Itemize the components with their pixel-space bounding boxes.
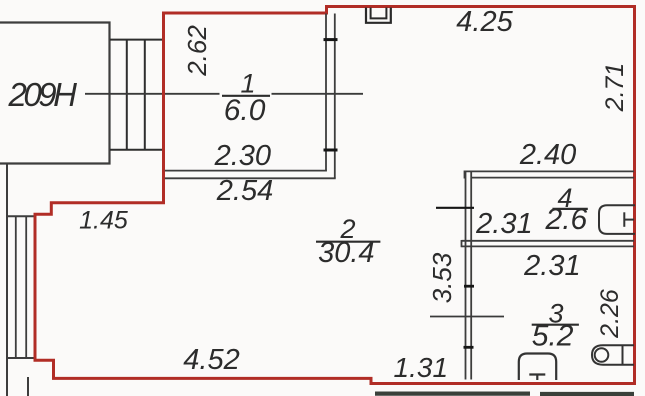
svg-text:2.31: 2.31	[523, 250, 580, 282]
svg-text:2.31: 2.31	[475, 208, 532, 240]
wall divider rooms 2/3-4 (double vertical)	[466, 171, 472, 379]
svg-text:30.4: 30.4	[318, 237, 374, 269]
fraction line room 2	[316, 241, 380, 243]
leader line from 209Н label (left part)	[85, 93, 220, 95]
fraction line room 1	[222, 95, 270, 97]
svg-text:2.71: 2.71	[601, 63, 629, 113]
svg-text:2.30: 2.30	[214, 140, 271, 172]
leader line from 209Н label (right part)	[272, 93, 364, 95]
washing machine symbol room 4	[599, 205, 635, 234]
svg-text:2.54: 2.54	[216, 175, 273, 207]
svg-text:1.45: 1.45	[79, 207, 128, 235]
svg-text:3.53: 3.53	[427, 252, 457, 303]
svg-text:209Н: 209Н	[8, 76, 78, 113]
toilet symbol room 3	[519, 354, 556, 381]
wall stub bottom-left	[27, 377, 29, 396]
staircase between neighbor unit and red wall	[110, 40, 163, 150]
svg-text:4.25: 4.25	[456, 6, 513, 38]
svg-text:1.31: 1.31	[394, 352, 449, 383]
vent niche symbol on top wall	[366, 8, 391, 23]
sink symbol room 3	[592, 345, 634, 364]
wall room1 bottom (double line)	[165, 171, 336, 179]
wall room1 right (double line)	[326, 14, 335, 179]
svg-text:2.62: 2.62	[182, 25, 212, 77]
svg-text:6.0: 6.0	[224, 94, 266, 127]
svg-text:2.40: 2.40	[519, 139, 576, 171]
leader line room 3	[430, 316, 504, 318]
fraction line room 4	[552, 208, 587, 210]
tick joints on divider wall	[436, 208, 474, 347]
svg-text:5.2: 5.2	[532, 320, 574, 353]
window in left wall (caps and panes)	[6, 216, 35, 358]
wall exterior bar below bottom (right segment)	[540, 392, 634, 396]
svg-text:2.6: 2.6	[545, 203, 588, 236]
wall room4 top (double line)	[465, 171, 635, 179]
wall exterior bar below bottom (left segment)	[375, 392, 530, 396]
tick joints on room1 right wall	[324, 40, 338, 150]
svg-text:4.52: 4.52	[183, 344, 239, 376]
wall left exterior below neighbor unit	[6, 164, 8, 396]
fraction line room 3	[532, 324, 579, 326]
svg-text:2.26: 2.26	[596, 289, 624, 339]
wall rooms 4/3 divider (double horizontal)	[462, 240, 635, 247]
wall neighbor-unit rectangle top-left	[0, 23, 110, 164]
